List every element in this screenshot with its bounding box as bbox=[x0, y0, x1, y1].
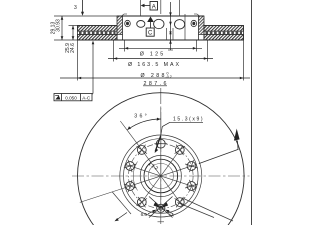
svg-text:30.93: 30.93 bbox=[55, 19, 61, 32]
section axis extension lines top bbox=[160, 0, 162, 14]
X cross leaders at bottom hole bbox=[149, 197, 173, 218]
thickness dim vertical at x=170.5 bbox=[170, 2, 172, 50]
dimension O288 0 / 287.6 bbox=[60, 41, 250, 87]
countersunk screw hole bottom bbox=[157, 204, 165, 212]
spokes through center bbox=[126, 139, 196, 212]
dimension O163.5 MAX bbox=[108, 41, 213, 69]
svg-text:C: C bbox=[148, 31, 153, 37]
bolt hole ellipse left large bbox=[137, 21, 145, 28]
svg-text:0.050: 0.050 bbox=[65, 95, 77, 100]
hub top face bbox=[117, 15, 204, 17]
circle r37.3 bbox=[124, 139, 199, 214]
6.6 label with leader bbox=[141, 210, 157, 217]
svg-text:6.6: 6.6 bbox=[141, 212, 148, 217]
14 label with leader bbox=[165, 210, 174, 218]
svg-text:24.6: 24.6 bbox=[70, 43, 76, 53]
extension line ring top to left bbox=[69, 25, 78, 27]
hat wall right (hatched section) bbox=[199, 16, 205, 34]
hat wall left (hatched section) bbox=[117, 16, 123, 34]
bottom-left diagonals bbox=[112, 192, 131, 214]
svg-text:A: A bbox=[152, 4, 156, 10]
bore step lines below face bbox=[167, 14, 186, 40]
thickness dimension 25.9/24.6 bbox=[65, 26, 76, 53]
bolt hole ellipse right small bbox=[191, 20, 197, 26]
svg-text:A-C: A-C bbox=[82, 95, 91, 100]
svg-text:Ø 288: Ø 288 bbox=[141, 73, 165, 79]
inner faint circle bbox=[148, 163, 173, 188]
friction ring right (hatched) bbox=[204, 26, 244, 41]
bolt hole ellipse right large bbox=[175, 20, 185, 29]
chamfer marks on face bbox=[122, 14, 200, 16]
tick below bbox=[158, 221, 165, 223]
vertical centerline bbox=[160, 88, 162, 225]
friction ring left (hatched) bbox=[78, 26, 118, 41]
bottom face line bbox=[78, 39, 244, 41]
svg-text:36°: 36° bbox=[134, 113, 147, 119]
dimension O125 bbox=[119, 41, 202, 58]
outer disc circle bbox=[78, 93, 245, 240]
bolt hole ellipse left small bbox=[125, 20, 131, 26]
datum A box with leader bbox=[141, 0, 158, 16]
bolt holes x9 bbox=[126, 139, 196, 206]
rotation arrow right bbox=[199, 129, 240, 164]
svg-text:3: 3 bbox=[74, 5, 77, 11]
bolt hole crosshair ticks bbox=[124, 144, 198, 208]
datum C triangle and box bbox=[146, 17, 154, 37]
bolt circle dash-dot bbox=[129, 144, 194, 209]
36 deg dimension bbox=[120, 108, 161, 146]
partial arc r27 left bbox=[133, 162, 137, 191]
horizontal centerline bbox=[72, 175, 250, 177]
bolt hole ellipse center-right bbox=[154, 19, 164, 28]
center bore circle bbox=[144, 159, 178, 193]
bottom-right diagonals bbox=[178, 203, 215, 218]
vent dashes left bbox=[79, 32, 116, 34]
height dimension 30.93/29.13 bbox=[51, 16, 64, 40]
extension line face to left bbox=[54, 15, 117, 17]
extension line ring bottom to left bbox=[54, 39, 78, 41]
GD&T runout frame bbox=[54, 41, 94, 101]
svg-text:Ø 125: Ø 125 bbox=[140, 52, 164, 58]
vent dashes right bbox=[206, 32, 243, 34]
15.3 (x9) label bbox=[155, 117, 203, 153]
svg-text:-0.2: -0.2 bbox=[166, 75, 172, 79]
hub register circle bbox=[140, 155, 181, 196]
frame border right bbox=[251, 0, 253, 225]
circle r41 bbox=[120, 135, 202, 217]
